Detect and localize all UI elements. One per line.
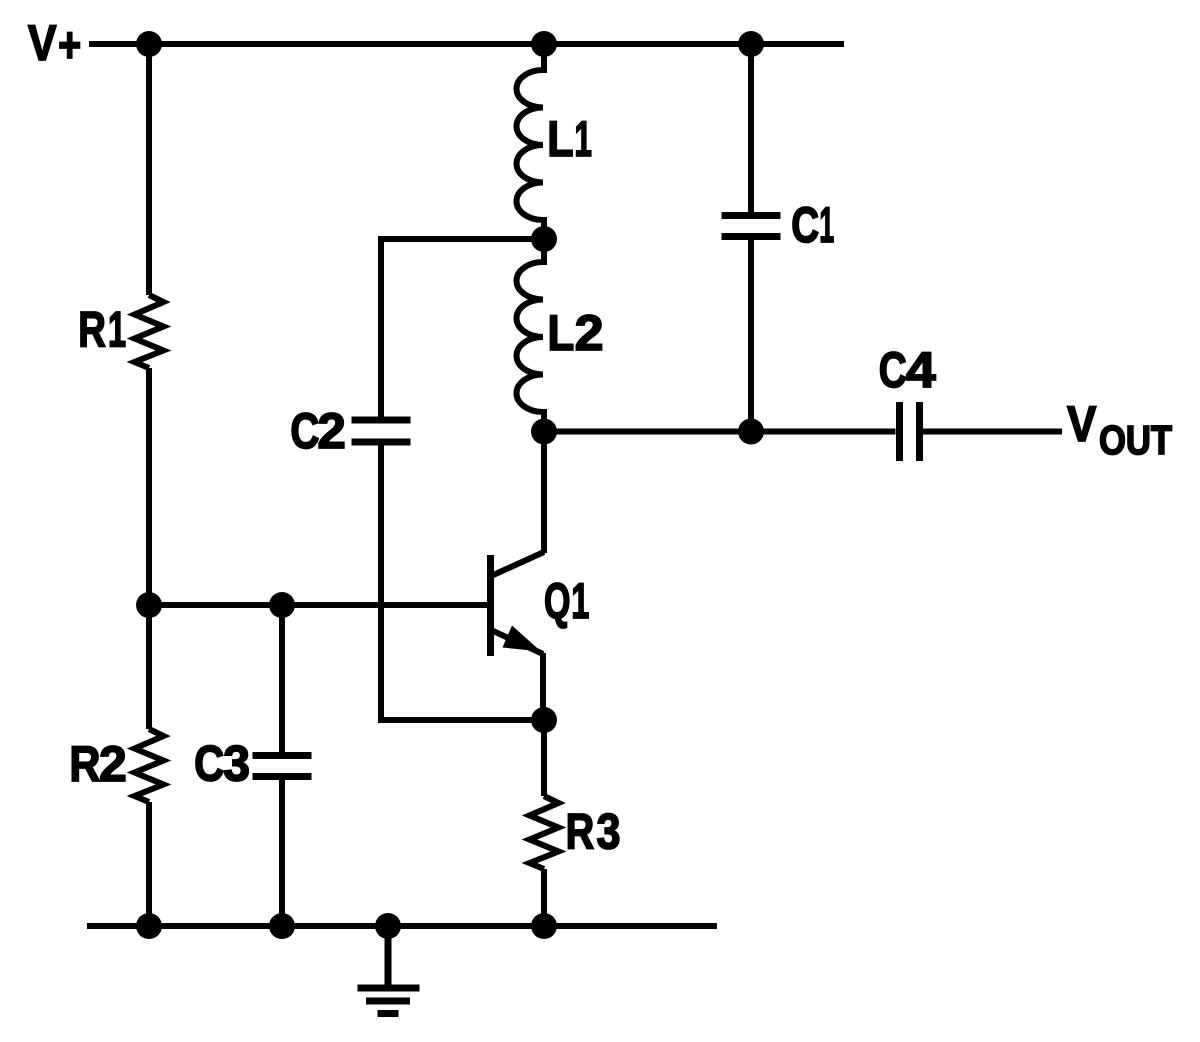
capacitor C1: [722, 216, 781, 237]
wire C1 to output row: [748, 240, 754, 432]
svg-text:C: C: [290, 403, 319, 459]
wire top rail V+: [89, 41, 844, 47]
node dot top rail / L1: [531, 31, 557, 57]
node dot base R1/R2: [136, 592, 162, 618]
node dot V+/R1: [136, 31, 162, 57]
svg-text:V: V: [28, 15, 57, 71]
node dot L2 / output row: [531, 419, 557, 445]
svg-text:R: R: [78, 302, 106, 358]
wire C2 bottom to emitter node: [381, 446, 544, 721]
wire R2 to ground rail: [146, 802, 152, 926]
wire C4 to VOUT: [923, 429, 1062, 435]
inductor L1: [517, 44, 545, 239]
svg-text:V: V: [1067, 396, 1097, 452]
wire C1 branch vertical upper: [748, 44, 754, 212]
wire output row: [544, 429, 896, 435]
svg-text:1: 1: [571, 573, 589, 629]
wire R1 branch vertical upper: [146, 44, 152, 295]
node dot L1/L2 tap: [531, 226, 557, 252]
node dot rail ground: [375, 913, 401, 939]
wire R3 to ground rail: [541, 869, 547, 926]
wire C3 branch vertical upper: [279, 605, 285, 752]
svg-text:1: 1: [108, 302, 126, 358]
node dot C1 / output row: [738, 419, 764, 445]
svg-text:OUT: OUT: [1099, 417, 1172, 463]
svg-text:R: R: [69, 736, 100, 792]
svg-text:L: L: [548, 305, 575, 361]
svg-text:2: 2: [99, 736, 127, 792]
capacitor C3: [253, 756, 312, 777]
capacitor C4: [900, 402, 920, 461]
node dot rail R3: [531, 913, 557, 939]
svg-text:2: 2: [575, 305, 604, 361]
wire base row: [149, 602, 488, 608]
node dot emitter: [531, 707, 557, 733]
svg-text:R: R: [566, 804, 595, 860]
wire emitter to R3: [541, 720, 547, 796]
svg-text:3: 3: [223, 736, 250, 792]
inductor L2: [517, 239, 545, 432]
resistor R1: [135, 295, 164, 368]
svg-text:1: 1: [574, 111, 592, 167]
svg-text:L: L: [547, 111, 573, 167]
node dot rail R2: [136, 913, 162, 939]
svg-text:2: 2: [317, 403, 345, 459]
wire R1 to base node: [146, 368, 152, 605]
svg-text:Q: Q: [544, 573, 570, 629]
node dot top rail / C1: [738, 31, 764, 57]
wire R2 branch vertical upper: [146, 605, 152, 729]
wire bottom ground rail: [87, 923, 717, 929]
svg-text:+: +: [58, 17, 81, 73]
wire C3 to ground rail: [279, 780, 285, 926]
transistor Q1: [491, 432, 545, 721]
svg-text:1: 1: [819, 197, 834, 253]
svg-text:3: 3: [597, 804, 621, 860]
resistor R2: [135, 729, 164, 802]
svg-text:C: C: [791, 197, 819, 253]
node dot base C3: [269, 592, 295, 618]
svg-text:4: 4: [906, 342, 936, 398]
resistor R3: [530, 796, 559, 869]
node dot rail C3: [269, 913, 295, 939]
wire C2 top link to L1/L2 tap: [381, 239, 544, 417]
svg-text:C: C: [879, 342, 907, 398]
ground: [358, 926, 420, 1014]
svg-text:C: C: [194, 736, 224, 792]
capacitor C2: [352, 420, 411, 442]
